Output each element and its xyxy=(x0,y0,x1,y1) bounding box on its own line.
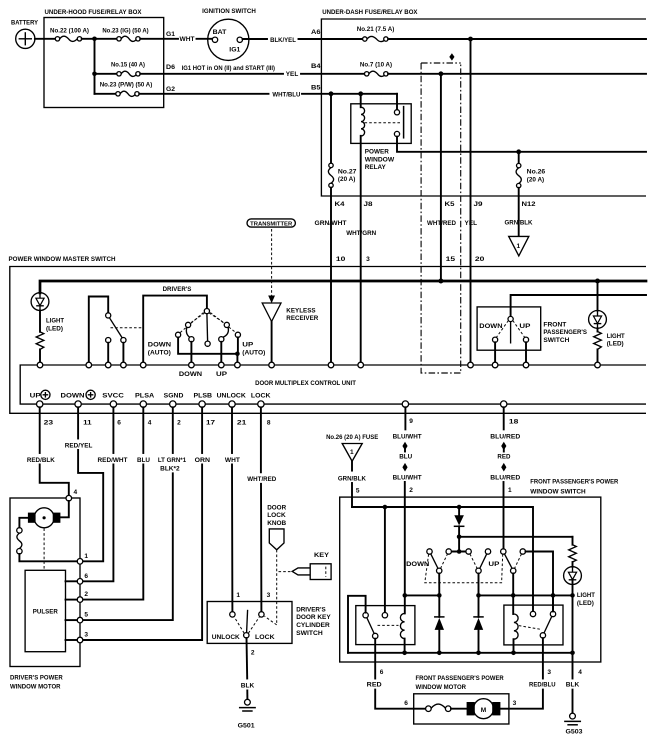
svg-text:3: 3 xyxy=(84,632,88,639)
svg-text:RED/WHT: RED/WHT xyxy=(98,457,128,464)
svg-text:GRN/WHT: GRN/WHT xyxy=(315,220,347,227)
pulser stub to terminal 3 xyxy=(66,639,78,641)
svg-text:1: 1 xyxy=(350,449,354,456)
svg-text:RECEIVER: RECEIVER xyxy=(286,315,318,322)
node diode out junction xyxy=(457,535,462,540)
svg-text:WINDOW MOTOR: WINDOW MOTOR xyxy=(10,683,61,690)
wire diode to rocker bar xyxy=(458,537,460,552)
diode D2 xyxy=(435,595,444,652)
wire RED/BLK pin23 to motor pin4 xyxy=(27,407,69,495)
fuse No.23 (IG) (50 A) xyxy=(102,28,148,42)
driver motor M1 xyxy=(28,508,61,528)
front passenger's switch (master unit) xyxy=(477,307,587,363)
svg-text:DOOR: DOOR xyxy=(267,504,286,511)
wire B4 row inside box xyxy=(388,73,646,75)
relay left in passenger switch xyxy=(356,606,415,645)
ground G501 xyxy=(238,699,256,729)
svg-text:WHT: WHT xyxy=(225,457,240,464)
svg-text:UP: UP xyxy=(216,371,228,378)
svg-text:IG1: IG1 xyxy=(229,47,240,54)
svg-text:RED/BLU: RED/BLU xyxy=(529,682,556,689)
LED light right side xyxy=(589,281,625,348)
rocker dashed linkages xyxy=(425,554,522,583)
svg-text:LT GRN*1: LT GRN*1 xyxy=(158,457,187,464)
wire coilR top xyxy=(512,595,514,614)
svg-text:BLK: BLK xyxy=(566,682,580,689)
node bus/WHT-RED junction xyxy=(438,279,443,284)
svg-text:POWER WINDOW MASTER SWITCH: POWER WINDOW MASTER SWITCH xyxy=(9,256,116,263)
svg-text:BLU/WHT: BLU/WHT xyxy=(393,434,422,441)
svg-text:No.26 (20 A) FUSE: No.26 (20 A) FUSE xyxy=(326,434,379,441)
fuse No.21 (7.5 A) xyxy=(357,26,395,41)
circuit breaker driver motor xyxy=(17,528,22,554)
svg-text:POWER: POWER xyxy=(365,149,389,156)
motor terminal 1 xyxy=(77,559,83,565)
pulser stub to terminal 2 xyxy=(66,599,78,601)
svg-text:1: 1 xyxy=(516,243,520,250)
svg-text:SVCC: SVCC xyxy=(102,393,124,400)
key switch contact 1 xyxy=(230,612,235,617)
wire diode to LED feed xyxy=(459,536,572,538)
svg-text:(LED): (LED) xyxy=(607,341,624,348)
driver's power window motor box xyxy=(10,498,80,690)
ground G503 xyxy=(565,713,583,735)
svg-text:UP: UP xyxy=(519,323,531,330)
wire junction to fuse15 xyxy=(95,73,117,75)
wire BLK to G501 xyxy=(241,638,255,699)
wire K4 GRN/WHT down to pin 10 xyxy=(330,188,332,363)
svg-text:WINDOW MOTOR: WINDOW MOTOR xyxy=(416,684,467,691)
wire BLK/YEL A6 xyxy=(243,29,365,44)
svg-text:WHT: WHT xyxy=(180,36,195,43)
under-hood fuse/relay box xyxy=(44,9,164,108)
wire relayR contact top xyxy=(552,595,554,611)
node rail/diode junction xyxy=(457,505,462,510)
svg-text:GRN/BLK: GRN/BLK xyxy=(338,475,366,482)
wire rocker lower drops xyxy=(439,574,513,596)
rocker switch bar xyxy=(427,549,526,554)
svg-text:DOWN: DOWN xyxy=(148,342,171,349)
node junction B xyxy=(92,72,97,77)
fuse No.26 (20 A) xyxy=(516,152,545,188)
svg-text:LOCK: LOCK xyxy=(251,393,271,400)
wire D6 YEL xyxy=(140,63,364,78)
svg-text:BLK: BLK xyxy=(241,683,255,690)
door multiplex control unit box xyxy=(20,365,646,404)
wire J9 YEL trunk xyxy=(470,39,472,362)
svg-text:IG1 HOT in ON (II) and START (: IG1 HOT in ON (II) and START (III) xyxy=(182,65,275,72)
dashed knob link xyxy=(276,550,278,625)
svg-text:11: 11 xyxy=(83,420,92,427)
wire junction line left y595 xyxy=(405,594,440,596)
svg-text:17: 17 xyxy=(206,420,215,427)
svg-text:(LED): (LED) xyxy=(577,600,594,607)
node relayR contact junction xyxy=(551,593,556,598)
node coilR bottom xyxy=(511,651,516,656)
svg-text:PLSA: PLSA xyxy=(135,393,154,400)
motor terminal 2 xyxy=(77,597,83,603)
svg-text:DOWN: DOWN xyxy=(406,561,429,568)
svg-text:BLK*2: BLK*2 xyxy=(160,466,180,473)
fuse No.7 (10 A) xyxy=(360,62,392,77)
svg-text:N12: N12 xyxy=(522,201,536,208)
svg-text:RED/YEL: RED/YEL xyxy=(65,442,93,449)
front passenger's power window motor box xyxy=(404,675,516,724)
wire coilR bottom xyxy=(513,639,515,653)
rocker lower contacts xyxy=(437,568,516,573)
svg-text:RED/BLK: RED/BLK xyxy=(27,457,55,464)
svg-text:FRONT: FRONT xyxy=(543,321,566,328)
motor terminal 5 xyxy=(77,617,83,623)
svg-text:M: M xyxy=(481,707,487,714)
fuse No.15 (40 A) xyxy=(111,62,145,77)
svg-text:1: 1 xyxy=(508,487,512,494)
svg-text:21: 21 xyxy=(237,420,247,427)
svg-text:(AUTO): (AUTO) xyxy=(148,349,171,356)
svg-text:KNOB: KNOB xyxy=(267,520,286,527)
svg-text:DRIVER'S: DRIVER'S xyxy=(296,606,326,613)
wire contact7 to relayR xyxy=(526,552,554,612)
svg-text:FRONT PASSENGER'S POWER: FRONT PASSENGER'S POWER xyxy=(416,675,504,682)
dash-dot option box xyxy=(421,53,461,373)
wire BLU/RED pin 18 stack xyxy=(490,407,520,549)
wire feed rail pin5 xyxy=(352,507,533,611)
svg-text:8: 8 xyxy=(267,420,271,427)
svg-text:FRONT PASSENGER'S POWER: FRONT PASSENGER'S POWER xyxy=(530,479,618,486)
svg-text:UNDER-DASH FUSE/RELAY BOX: UNDER-DASH FUSE/RELAY BOX xyxy=(322,9,418,16)
wire coilL bottom xyxy=(404,639,406,653)
svg-text:UNLOCK: UNLOCK xyxy=(212,634,240,641)
wire RED/YEL pin11 to motor pin1 xyxy=(65,407,103,561)
wire bottom rail xyxy=(348,652,573,654)
resistor right LED xyxy=(594,328,602,362)
power window relay xyxy=(351,104,411,171)
svg-text:UP: UP xyxy=(30,393,42,400)
wire K5 WHT/RED trunk xyxy=(440,74,442,281)
svg-text:18: 18 xyxy=(509,419,519,426)
svg-text:LIGHT: LIGHT xyxy=(607,333,625,340)
svg-text:No.21 (7.5 A): No.21 (7.5 A) xyxy=(357,26,395,33)
svg-text:ORN: ORN xyxy=(195,457,211,464)
svg-text:No.7 (10 A): No.7 (10 A) xyxy=(360,62,392,69)
wire BLK pin 4 to G503 xyxy=(566,653,582,713)
svg-text:TRANSMITTER: TRANSMITTER xyxy=(250,221,292,227)
wire GRN/BLK fuse to pin 5 xyxy=(338,461,366,507)
svg-text:10: 10 xyxy=(336,256,346,263)
svg-text:A6: A6 xyxy=(311,29,321,36)
wire breaker to terminal 1 xyxy=(19,554,77,561)
under-dash fuse/relay box xyxy=(321,9,646,196)
motor terminal 6 xyxy=(77,579,83,585)
key xyxy=(292,552,331,580)
svg-text:CYLINDER: CYLINDER xyxy=(296,622,330,629)
driver's door key cylinder switch box xyxy=(207,602,331,644)
pulser stub to terminal 6 xyxy=(66,580,78,582)
node diode3 bottom xyxy=(476,651,481,656)
auto-select switch S1 xyxy=(89,297,126,363)
svg-text:IGNITION SWITCH: IGNITION SWITCH xyxy=(202,8,256,15)
diode D1 top xyxy=(454,507,464,537)
svg-text:23: 23 xyxy=(44,420,54,427)
dashed link S1 to driver's switch xyxy=(111,327,144,329)
svg-text:LOCK: LOCK xyxy=(255,634,275,641)
wire bus down in under-hood box xyxy=(94,39,96,94)
svg-text:PULSER: PULSER xyxy=(33,609,58,616)
wire LT GRN/BLK pin2 to motor pin5 xyxy=(83,407,186,620)
svg-text:BLU/WHT: BLU/WHT xyxy=(393,475,422,482)
wire RED pin 6 to motor xyxy=(367,669,412,709)
resistor passenger LED xyxy=(569,537,577,562)
control unit top terminals xyxy=(37,362,600,368)
svg-text:B4: B4 xyxy=(311,63,321,70)
breaker passenger motor xyxy=(414,704,468,711)
node diode2 bottom xyxy=(437,651,442,656)
svg-text:BATTERY: BATTERY xyxy=(11,20,39,27)
svg-text:WHT/RED: WHT/RED xyxy=(247,476,276,483)
wire WHT pin21 to key cylinder 1 xyxy=(225,407,240,612)
svg-text:DOOR MULTIPLEX CONTROL UNIT: DOOR MULTIPLEX CONTROL UNIT xyxy=(255,380,356,387)
svg-text:1: 1 xyxy=(236,592,240,599)
svg-text:(20 A): (20 A) xyxy=(338,176,356,183)
transmitter xyxy=(247,219,295,228)
diode D3 xyxy=(474,595,483,652)
wire G2 WHT/BLU B5 xyxy=(139,84,397,98)
ignition switch IG1 xyxy=(202,8,256,60)
svg-text:G501: G501 xyxy=(238,723,255,730)
node pin2/coil junction xyxy=(403,593,408,598)
node diode2 junction xyxy=(476,593,481,598)
wire relay contact output xyxy=(397,137,646,152)
svg-text:PLSB: PLSB xyxy=(194,393,213,400)
wire left brush to breaker xyxy=(19,518,28,528)
fuse No.22 (100 A) xyxy=(50,28,89,42)
node relay-out/No.26 junction xyxy=(516,149,521,154)
keyless receiver antenna xyxy=(262,303,318,362)
key switch contact 3 xyxy=(259,612,264,617)
node A6/YEL junction xyxy=(468,37,473,42)
svg-text:WINDOW SWITCH: WINDOW SWITCH xyxy=(530,488,586,495)
svg-text:No.23 (IG) (50 A): No.23 (IG) (50 A) xyxy=(102,28,148,35)
driver's switch xyxy=(143,286,265,378)
node bus/LED-R junction xyxy=(595,279,600,284)
svg-text:BLK/YEL: BLK/YEL xyxy=(270,37,296,44)
svg-text:1: 1 xyxy=(84,553,88,560)
svg-text:UNLOCK: UNLOCK xyxy=(217,393,246,400)
wire relay coil bottom to J8 pin 3 xyxy=(360,136,362,363)
svg-text:DRIVER'S POWER: DRIVER'S POWER xyxy=(10,675,63,682)
svg-text:9: 9 xyxy=(409,418,413,425)
wire A6 row inside box xyxy=(388,38,646,40)
wire passenger feed line xyxy=(511,295,646,316)
svg-text:WINDOW: WINDOW xyxy=(365,156,395,163)
svg-text:G503: G503 xyxy=(566,728,583,735)
svg-text:No.15 (40 A): No.15 (40 A) xyxy=(111,62,145,69)
svg-text:BLU: BLU xyxy=(399,453,412,460)
door lock knob xyxy=(267,504,286,549)
No.26 (20 A) FUSE triangle xyxy=(326,434,379,461)
motor terminal 3 xyxy=(77,637,83,643)
control unit pin name UP + xyxy=(30,390,50,399)
wire relay coil top xyxy=(360,94,362,107)
svg-text:DOWN: DOWN xyxy=(179,371,202,378)
svg-text:GRN/BLK: GRN/BLK xyxy=(505,220,533,227)
node B5/No.27 junction xyxy=(329,91,334,96)
svg-text:No.23 (P/W) (50 A): No.23 (P/W) (50 A) xyxy=(100,82,153,89)
wire relayR blade to pin 3 xyxy=(542,638,544,678)
wire battery to fuse box xyxy=(35,38,56,40)
node B4/WHT-RED junction xyxy=(439,71,444,76)
svg-text:BLU: BLU xyxy=(137,457,150,464)
node rail/relayL junction xyxy=(383,505,388,510)
svg-text:BLU/RED: BLU/RED xyxy=(490,434,520,441)
svg-text:6: 6 xyxy=(84,573,88,580)
svg-text:3: 3 xyxy=(547,669,551,676)
wire relayL NC contact loop xyxy=(348,596,366,653)
svg-text:(LED): (LED) xyxy=(46,325,63,332)
svg-text:No.27: No.27 xyxy=(338,168,357,175)
wire B5 down to relay contact xyxy=(396,94,398,110)
wire thick power bus xyxy=(40,281,646,293)
svg-text:G1: G1 xyxy=(166,31,175,38)
svg-text:WHT/BLU: WHT/BLU xyxy=(272,91,300,98)
front passenger's power window switch box xyxy=(340,479,619,662)
svg-text:(20 A): (20 A) xyxy=(527,176,545,183)
svg-text:J8: J8 xyxy=(364,201,373,208)
control unit pin name DOWN + xyxy=(61,390,96,399)
svg-text:RELAY: RELAY xyxy=(365,164,387,171)
pulser stub to terminal 5 xyxy=(66,619,78,621)
svg-text:No.26: No.26 xyxy=(527,169,546,176)
svg-text:LIGHT: LIGHT xyxy=(46,318,64,325)
svg-text:DOOR KEY: DOOR KEY xyxy=(296,614,331,621)
svg-text:LOCK: LOCK xyxy=(267,512,286,519)
wire resistor to pin xyxy=(39,349,41,362)
svg-text:DRIVER'S: DRIVER'S xyxy=(163,286,192,293)
LED light master switch xyxy=(31,293,64,333)
svg-text:2: 2 xyxy=(84,591,88,598)
svg-text:20: 20 xyxy=(475,256,485,263)
svg-text:SGND: SGND xyxy=(164,393,184,400)
dashed knob to blade xyxy=(265,616,277,625)
svg-text:2: 2 xyxy=(177,420,181,427)
wire coilL top xyxy=(404,595,406,613)
dashed transmitter signal arrow xyxy=(268,229,275,303)
svg-text:RED: RED xyxy=(367,682,382,689)
svg-text:KEYLESS: KEYLESS xyxy=(286,307,316,314)
wire G1 WHT xyxy=(140,31,212,43)
svg-text:G2: G2 xyxy=(166,86,175,93)
power window master switch box xyxy=(9,256,647,414)
svg-text:YEL: YEL xyxy=(286,71,299,78)
svg-text:UP: UP xyxy=(488,561,500,568)
control unit bottom pins xyxy=(37,401,507,407)
resistor master LED xyxy=(36,332,44,350)
svg-text:5: 5 xyxy=(356,487,360,494)
svg-text:5: 5 xyxy=(84,612,88,619)
wire terminal4 to motor brush xyxy=(61,501,69,517)
svg-text:K5: K5 xyxy=(445,201,455,208)
fuse No.27 (20 A) xyxy=(328,94,356,188)
svg-text:4: 4 xyxy=(74,489,78,496)
svg-text:SWITCH: SWITCH xyxy=(543,337,569,344)
wire LED to resistor xyxy=(39,311,41,332)
wire BLU/WHT pin 9 stack xyxy=(393,407,422,595)
LED passenger switch xyxy=(564,562,595,607)
svg-text:K4: K4 xyxy=(335,201,345,208)
svg-text:RED: RED xyxy=(497,453,510,460)
svg-text:4: 4 xyxy=(578,669,582,676)
svg-text:6: 6 xyxy=(117,420,121,427)
wire RED/WHT pin6 to motor pin6 xyxy=(83,407,127,581)
svg-text:(AUTO): (AUTO) xyxy=(242,349,265,356)
node B5/relay-coil junction xyxy=(358,91,363,96)
motor M2 passenger xyxy=(467,699,509,719)
svg-text:J9: J9 xyxy=(474,201,483,208)
svg-text:PASSENGER'S: PASSENGER'S xyxy=(543,329,587,336)
pulser box xyxy=(25,570,65,651)
relay right in passenger switch xyxy=(504,605,563,645)
dashed motor shaft link xyxy=(43,528,45,570)
svg-text:BAT: BAT xyxy=(213,29,227,36)
svg-text:UNDER-HOOD FUSE/RELAY BOX: UNDER-HOOD FUSE/RELAY BOX xyxy=(45,9,143,16)
fuse No.23 (P/W) (50 A) xyxy=(100,82,153,97)
motor terminal 4 xyxy=(66,495,72,501)
wire junction line right y595 xyxy=(479,594,573,596)
wire ORN pin17 to motor pin3 xyxy=(83,407,210,640)
dashed key link xyxy=(278,571,291,573)
wire fuse22 to fuse23 xyxy=(82,38,117,40)
svg-text:No.22 (100 A): No.22 (100 A) xyxy=(50,28,89,35)
battery xyxy=(11,20,39,49)
svg-text:DOWN: DOWN xyxy=(61,393,85,400)
svg-text:DOWN: DOWN xyxy=(479,323,502,330)
wire LED to bottom rail xyxy=(572,595,574,652)
svg-text:2: 2 xyxy=(251,650,255,657)
wire RED/BLU pin 3 to motor xyxy=(511,669,556,709)
node BLK drop xyxy=(570,651,575,656)
wire N12 GRN/BLK xyxy=(518,188,520,236)
svg-text:4: 4 xyxy=(148,420,152,427)
svg-text:3: 3 xyxy=(267,592,271,599)
node LED drop junction xyxy=(570,593,575,598)
svg-text:6: 6 xyxy=(380,669,384,676)
svg-text:KEY: KEY xyxy=(314,552,330,559)
rocker blades xyxy=(431,554,512,569)
svg-text:D6: D6 xyxy=(166,64,175,71)
wire relayL blade to pin 6 xyxy=(374,639,376,679)
node coilL bottom xyxy=(402,651,407,656)
node junction A xyxy=(92,37,97,42)
svg-text:LIGHT: LIGHT xyxy=(577,592,595,599)
svg-text:BLU/RED: BLU/RED xyxy=(490,475,520,482)
svg-text:15: 15 xyxy=(446,256,456,263)
node diode1 junction xyxy=(437,593,442,598)
svg-text:6: 6 xyxy=(404,700,408,707)
wire WHT/RED pin8 to key cylinder 3 xyxy=(247,407,276,612)
svg-text:3: 3 xyxy=(366,256,370,263)
wire relayL contact drop xyxy=(384,507,386,613)
svg-text:B5: B5 xyxy=(311,84,321,91)
node coilR junction xyxy=(511,593,516,598)
wire BLU pin4 to motor pin2 xyxy=(83,407,150,599)
key switch common and blade xyxy=(234,610,259,638)
svg-text:WHT/GRN: WHT/GRN xyxy=(346,230,376,237)
svg-text:UP: UP xyxy=(242,342,254,349)
svg-text:2: 2 xyxy=(409,487,413,494)
wire to fuse P/W xyxy=(95,93,117,95)
svg-text:3: 3 xyxy=(513,700,517,707)
ground triangle 1 xyxy=(509,236,529,256)
